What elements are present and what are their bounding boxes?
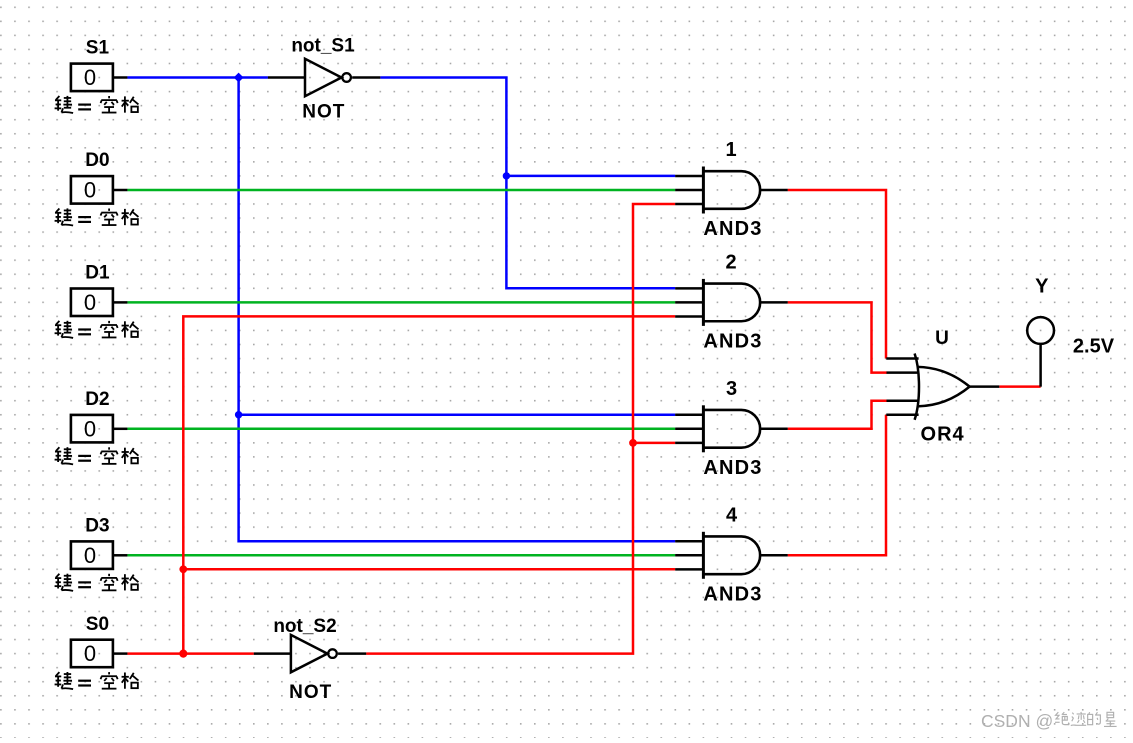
junction dot on not_S2 net at AND3 pin3 branch (629, 439, 637, 447)
svg-text:S1: S1 (86, 38, 110, 59)
or-gate U OR4 (886, 354, 999, 420)
svg-text:0: 0 (84, 178, 96, 203)
wire Y output net (red) from OR4 output to probe (999, 385, 1040, 388)
switch D0 (71, 176, 128, 204)
junction dot on S0 net at AND4 pin3 branch (179, 565, 187, 573)
wire D0 net (green) (127, 189, 675, 192)
svg-text:D2: D2 (85, 389, 109, 410)
svg-text:D0: D0 (85, 150, 109, 171)
junction diamond on S1 net at NOT1 input (234, 73, 244, 83)
svg-text:1: 1 (725, 139, 736, 161)
wire D2 net (green) (127, 428, 675, 431)
switch D2 key legend 键 = 空格 (55, 447, 139, 464)
junction dot on not_S1 net at AND1 pin1 branch (503, 172, 510, 179)
switch S1 (71, 64, 128, 92)
probe Y circle (1027, 317, 1054, 344)
watermark CSDN @绝迹的星 (981, 711, 1117, 731)
svg-text:0: 0 (84, 543, 96, 568)
svg-text:0: 0 (84, 290, 96, 315)
switch D3 (71, 541, 128, 569)
svg-text:not_S2: not_S2 (273, 616, 336, 637)
svg-text:AND3: AND3 (703, 457, 762, 479)
wire AND2 output net (red) to OR4 pin2 (788, 302, 887, 372)
svg-text:2: 2 (725, 251, 736, 273)
svg-text:S0: S0 (86, 614, 109, 635)
wire D3 net (green) (127, 554, 675, 557)
svg-text:AND3: AND3 (703, 330, 762, 352)
svg-text:0: 0 (84, 641, 96, 666)
svg-text:NOT: NOT (302, 102, 345, 123)
svg-text:Y: Y (1035, 275, 1049, 297)
switch D3 key legend 键 = 空格 (55, 574, 139, 591)
svg-text:NOT: NOT (289, 682, 332, 703)
svg-text:0: 0 (84, 416, 96, 441)
switch D1 key legend 键 = 空格 (55, 321, 139, 338)
wire D1 net (green) (127, 301, 675, 304)
switch S0 (71, 640, 128, 668)
wire S1 net (blue) from S1 switch to NOT1 input with branch to AND3/AND4 pin1 (127, 78, 675, 542)
and-gate 1 (675, 167, 788, 214)
svg-text:U: U (935, 328, 949, 349)
svg-text:2.5V: 2.5V (1073, 335, 1115, 357)
junction dot on S1 net at AND3 pin1 branch (235, 411, 242, 418)
switch D2 (71, 415, 128, 443)
and-gate 3 (675, 405, 788, 452)
svg-text:not_S1: not_S1 (291, 36, 355, 57)
svg-text:OR4: OR4 (921, 423, 965, 445)
junction dot on S0 net at NOT2 input (179, 650, 187, 658)
wire AND4 output net (red) to OR4 pin4 (788, 415, 886, 556)
svg-text:CSDN @: CSDN @ (981, 711, 1053, 731)
switch S0 key legend 键 = 空格 (55, 672, 139, 689)
probe Y pin wire (1039, 344, 1042, 387)
svg-text:4: 4 (726, 504, 738, 526)
inverter not_S2 (254, 635, 366, 672)
wire AND3 output net (red) to OR4 pin3 (788, 401, 887, 429)
wire not_S1 net (blue) from NOT1 output to AND1/AND2 pin1 (380, 78, 675, 289)
switch S1 key legend 键 = 空格 (55, 96, 139, 113)
svg-text:D1: D1 (85, 263, 110, 284)
switch D0 key legend 键 = 空格 (55, 208, 139, 225)
inverter not_S1 (268, 59, 380, 96)
switch D1 (71, 289, 128, 317)
wire S0 net (red) from S0 switch to NOT2 input with branches to AND2/AND4 pin3 (127, 316, 675, 653)
and-gate 2 (675, 279, 788, 326)
wire not_S2 net (red) from NOT2 output to AND1/AND3 pin3 (366, 204, 675, 654)
svg-text:AND3: AND3 (703, 218, 762, 240)
svg-text:D3: D3 (85, 516, 109, 537)
wire AND1 output net (red) to OR4 pin1 (788, 190, 886, 359)
svg-text:0: 0 (84, 65, 96, 90)
and-gate 4 (675, 532, 788, 579)
svg-text:3: 3 (726, 378, 737, 400)
svg-text:AND3: AND3 (703, 583, 762, 605)
